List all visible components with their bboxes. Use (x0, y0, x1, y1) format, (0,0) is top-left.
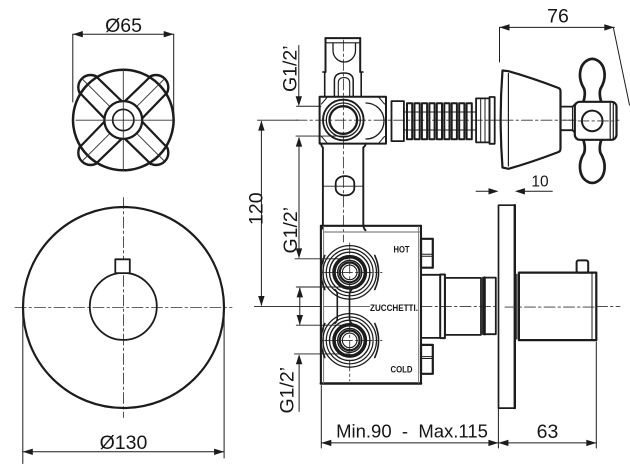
bell centerline (502, 119, 576, 121)
svg-text:G1/2’: G1/2’ (277, 367, 299, 414)
bell escutcheon (501, 71, 561, 169)
hub chamfer lines (609, 103, 611, 138)
dimension 76 (500, 26, 615, 28)
svg-text:G1/2’: G1/2’ (280, 207, 302, 254)
svg-text:COLD: COLD (390, 364, 412, 375)
dimension Min.90 - Max.115 (320, 386, 322, 449)
body vertical centerline (349, 243, 351, 381)
top assembly centerline vertical (342, 40, 344, 242)
spoke group NW (80, 76, 122, 118)
hose ribs (407, 103, 472, 139)
yoke arch inner (338, 78, 349, 97)
dimension Ø130 (23, 311, 224, 464)
hose end collar (476, 98, 489, 142)
pipe cap line (326, 42, 361, 44)
top port block (320, 97, 386, 144)
dimension 10 (476, 190, 488, 192)
HOT side clips (321, 256, 325, 290)
dimension 63 (498, 442, 596, 444)
yoke arch outer (334, 73, 353, 97)
HOT port rings (326, 249, 373, 296)
G1/2 top dimension (298, 46, 300, 98)
body mid centerline (324, 305, 370, 307)
handle rim circle (73, 70, 174, 171)
riser oval hole (336, 176, 355, 195)
block right bulge (366, 103, 384, 139)
COLD side clips (321, 324, 325, 358)
knob end chamfer (591, 273, 593, 341)
bell rim line (507, 74, 509, 167)
svg-text:HOT: HOT (393, 244, 410, 255)
svg-text:G1/2’: G1/2’ (280, 45, 302, 92)
cartridge end ring (483, 278, 496, 335)
top port rings (323, 100, 364, 141)
cartridge cylinder (445, 278, 481, 335)
svg-text:120: 120 (246, 192, 268, 225)
svg-text:63: 63 (537, 421, 559, 443)
knob sleeve (519, 273, 596, 341)
axis centerline horizontal top port (258, 119, 299, 121)
stem flare (573, 104, 576, 107)
handle ear NE (144, 75, 169, 100)
small inner dimension arrows (299, 288, 301, 324)
hose collar (392, 101, 404, 141)
cartridge waist slot (335, 290, 337, 324)
handle crosshair horizontal (76, 119, 175, 121)
svg-text:10: 10 (531, 174, 549, 191)
flexible hose gap lines (404, 111, 476, 113)
svg-text:ZUCCHETTI.: ZUCCHETTI. (370, 302, 418, 313)
body outline (321, 226, 421, 384)
handle ear SE (144, 140, 169, 165)
pipe thread window (333, 43, 356, 62)
spoke group SE (125, 122, 167, 164)
dimension Ø65 (73, 34, 174, 120)
spoke group NE (125, 76, 167, 118)
cartridge dogbone outline (323, 246, 377, 300)
handle lower arm (580, 140, 605, 183)
handle hub block (575, 102, 617, 140)
svg-text:76: 76 (547, 6, 569, 28)
knob centerline (505, 306, 596, 308)
svg-text:Ø130: Ø130 (100, 432, 148, 454)
handle upper arm (580, 59, 605, 102)
block corner chamfers (322, 98, 385, 143)
handle stem neck (561, 106, 573, 108)
COLD port centerline (322, 339, 382, 341)
pipe shoulder (323, 72, 363, 97)
top pipe G1/2 (326, 38, 361, 72)
cartridge washer (440, 275, 445, 339)
riser cross line (323, 185, 363, 187)
body bottom edge (321, 382, 421, 385)
COLD port rings (326, 317, 373, 364)
handle ear NW (78, 75, 103, 100)
plate inner circle (90, 273, 157, 340)
wall plate side (499, 205, 515, 408)
fixing tab top (421, 239, 433, 268)
plate centerline vertical (123, 198, 125, 418)
HOT port centerline (322, 271, 382, 273)
handle crosshair vertical (122, 70, 124, 170)
plate outer circle Ø130 (23, 207, 224, 408)
hose end lip (490, 97, 495, 144)
handle ear SW (78, 140, 103, 165)
hub front boss circle (582, 111, 603, 132)
hub centerline dash (578, 120, 617, 122)
cartridge neck (421, 274, 440, 276)
dimension 120 (260, 122, 262, 306)
plate centerline horizontal (15, 307, 232, 309)
riser tube (321, 144, 366, 231)
body inner edge lines (323, 227, 325, 384)
G1/2 middle dimension (298, 138, 300, 258)
handle hub bore (113, 109, 134, 130)
plate notch square (115, 259, 130, 273)
trim flange (516, 274, 518, 339)
svg-text:Min.90 - Max.115: Min.90 - Max.115 (336, 421, 488, 442)
svg-text:Ø65: Ø65 (105, 15, 142, 37)
handle hub (104, 101, 142, 139)
knob top key (577, 260, 589, 272)
G1/2 bottom dimension (298, 356, 300, 411)
fixing tab bottom (421, 345, 433, 374)
spoke group SW (79, 122, 121, 164)
